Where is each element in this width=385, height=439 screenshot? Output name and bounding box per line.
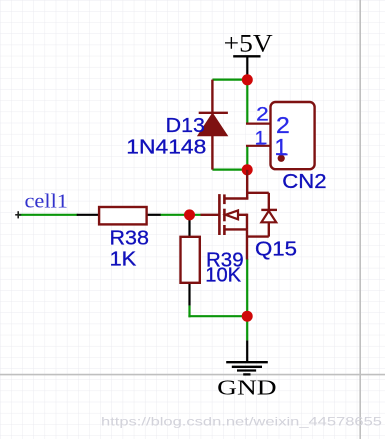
wire R38 right stub <box>146 214 161 216</box>
svg-text:2: 2 <box>256 104 269 126</box>
node C junction <box>184 209 195 220</box>
svg-text:Q15: Q15 <box>255 238 297 260</box>
resistor R39 <box>181 237 200 283</box>
wire CN2 pin 1 to node B <box>246 146 248 170</box>
node D junction <box>242 311 253 322</box>
svg-text:R38: R38 <box>110 228 150 250</box>
wire Q15 source to GND <box>246 259 248 341</box>
wire top left from node A <box>212 78 247 80</box>
major grid line horizontal <box>0 374 385 376</box>
wire end marker <box>15 211 21 218</box>
node B junction <box>242 164 253 175</box>
major grid line vertical <box>359 0 361 439</box>
wire node C down to R39 <box>188 215 190 237</box>
wire node A down to CN2 pin 2 <box>246 80 248 124</box>
body diode of Q15 <box>246 193 277 237</box>
power symbol +5V bar <box>233 56 260 80</box>
svg-text:10K: 10K <box>205 265 241 287</box>
diode D13 <box>198 80 228 170</box>
wire R38 left stub <box>77 214 100 216</box>
wire cell1 left segment <box>18 214 77 216</box>
svg-text:GND: GND <box>217 375 277 399</box>
wire R39 bottom stub <box>188 283 190 306</box>
wire R38 to node C <box>161 214 201 216</box>
wire diode bottom to node B <box>212 169 247 171</box>
svg-text:D13: D13 <box>166 115 205 137</box>
wire R39 to node D horizontal <box>188 315 247 317</box>
resistor R38 <box>99 207 147 224</box>
svg-text:1: 1 <box>255 127 266 149</box>
svg-text:CN2: CN2 <box>282 171 326 193</box>
svg-text:1K: 1K <box>110 249 138 271</box>
svg-text:+5V: +5V <box>224 31 273 58</box>
connector CN2 <box>246 102 315 169</box>
svg-text:cell1: cell1 <box>25 191 69 213</box>
svg-text:https://blog.csdn.net/weixin_4: https://blog.csdn.net/weixin_44578655 <box>101 414 382 428</box>
svg-text:1: 1 <box>274 134 287 160</box>
ground symbol <box>226 340 268 374</box>
svg-text:1N4148: 1N4148 <box>126 137 206 159</box>
transistor Q15 <box>201 170 249 260</box>
wire R39 to node D vertical <box>188 306 190 318</box>
node A junction <box>242 74 253 85</box>
